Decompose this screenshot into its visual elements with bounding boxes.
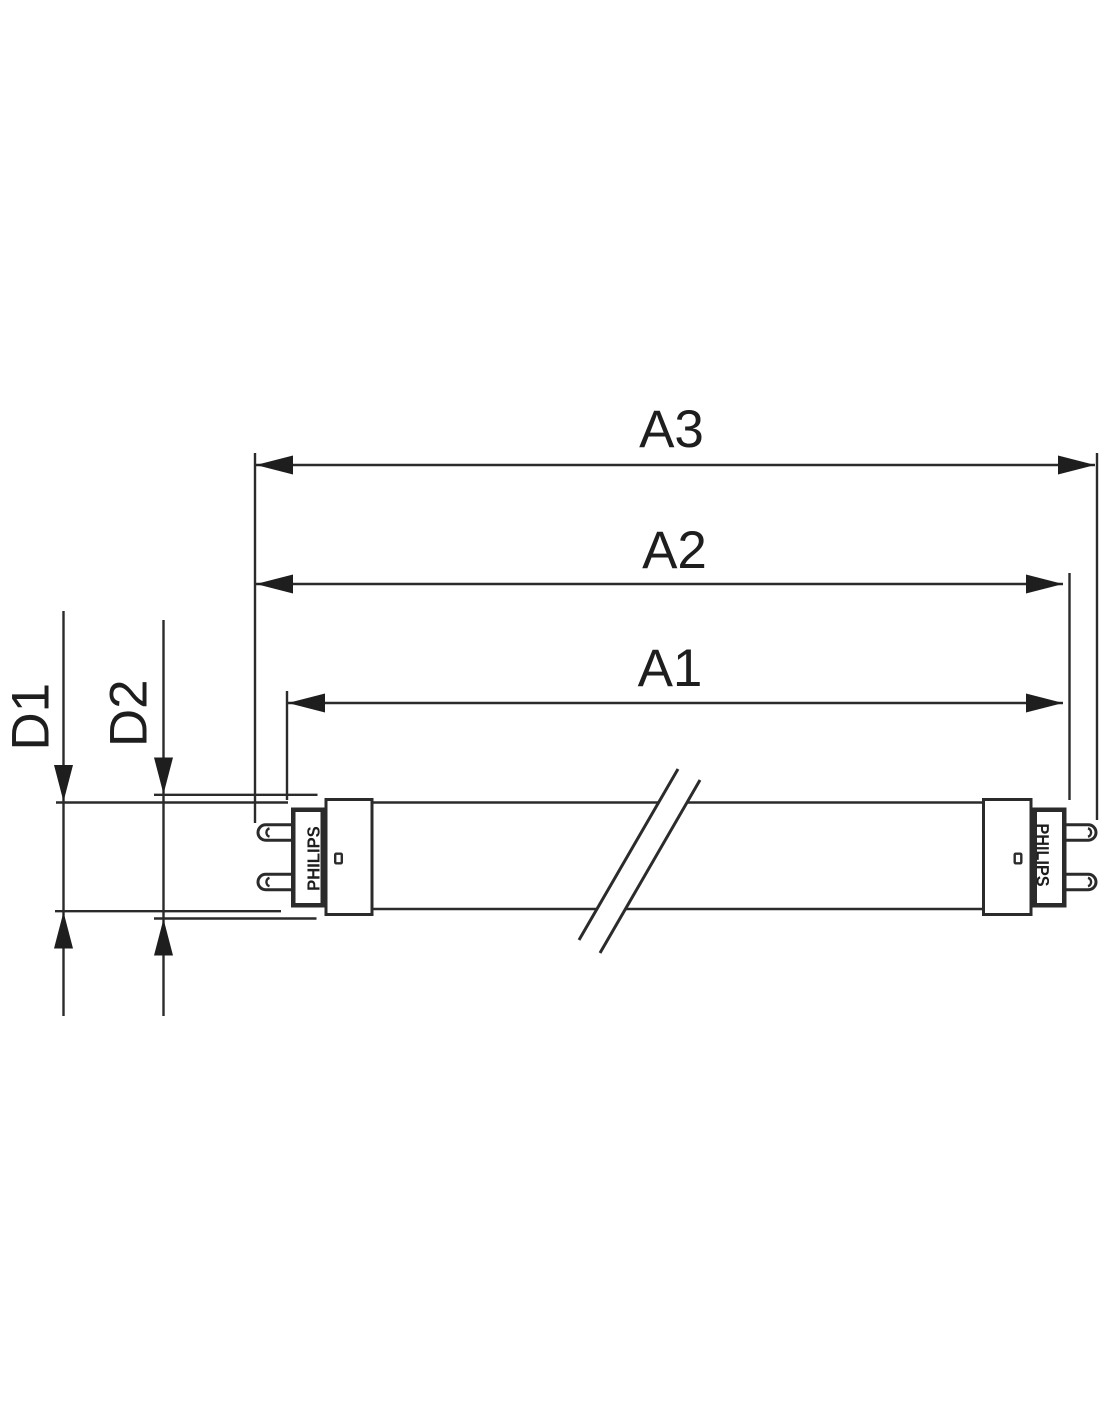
break symbol diagonal 2 [600, 780, 700, 953]
right marker square [1015, 854, 1022, 864]
svg-text:A2: A2 [642, 521, 707, 580]
dimension line A3 [256, 464, 1095, 466]
extension line left (cap face, for A1) [286, 691, 288, 800]
svg-text:D1: D1 [2, 683, 61, 751]
arrowhead A1 left [288, 694, 325, 713]
arrowhead D2 up [154, 919, 173, 956]
PHILIPS text left [307, 827, 319, 890]
break symbol diagonal 1 [579, 769, 678, 940]
right pin 1 [1064, 825, 1096, 840]
right ring [984, 800, 1032, 915]
left ring [326, 800, 372, 915]
svg-text:A3: A3 [639, 400, 704, 459]
extension line right (pin tips, for A3) [1096, 453, 1098, 820]
arrowhead A3 left [256, 456, 293, 475]
right end cap group [984, 800, 1097, 915]
arrowhead A1 right [1026, 694, 1063, 713]
D2 dimension vertical line [162, 620, 164, 1016]
D1 extension line bottom (tube bottom) [55, 910, 281, 912]
extension line right (cap face, for A2/A1) [1068, 573, 1070, 800]
tube body bottom outline [373, 908, 982, 911]
D1 dimension vertical line [62, 611, 64, 1016]
svg-text:D2: D2 [100, 679, 159, 747]
extension line left (pin tips, for A3/A2) [254, 453, 256, 823]
right pin 2 [1064, 874, 1096, 889]
arrowhead A3 right [1058, 456, 1095, 475]
svg-text:A1: A1 [638, 639, 703, 698]
dimension line A1 [288, 702, 1063, 704]
left marker square [335, 854, 342, 864]
left pin 1 [258, 825, 293, 840]
D2 extension line top (ring top) [154, 794, 318, 796]
tube body top outline [373, 801, 982, 804]
D2 extension line bottom (ring bottom) [154, 917, 317, 919]
arrowhead D2 down [154, 758, 173, 795]
D1 extension line top (tube top) [56, 801, 288, 803]
PHILIPS text right [1037, 825, 1049, 886]
arrowhead A2 right [1026, 575, 1063, 594]
dimension line A2 [256, 583, 1063, 585]
left pin 2 [258, 874, 293, 889]
left end cap group [258, 800, 372, 915]
arrowhead A2 left [256, 575, 293, 594]
left cap (PHILIPS) [293, 810, 323, 906]
arrowhead D1 up [54, 912, 73, 949]
right cap (PHILIPS) [1035, 810, 1065, 906]
break symbol white gap [579, 769, 700, 953]
arrowhead D1 down [54, 765, 73, 802]
